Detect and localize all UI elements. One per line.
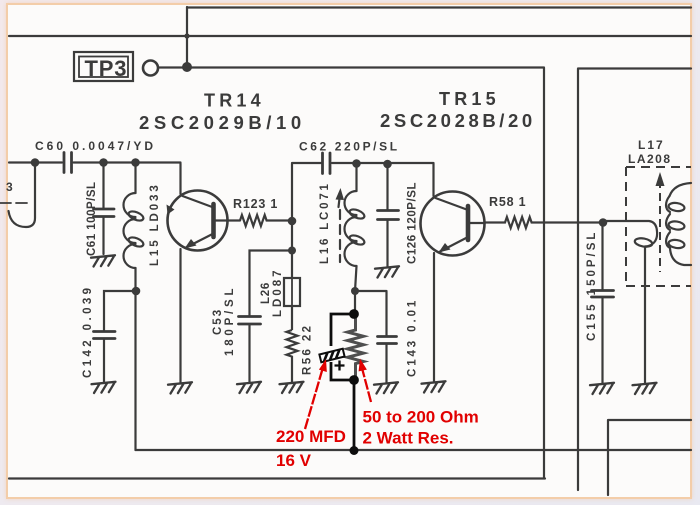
node black square bottom bbox=[349, 375, 359, 385]
plus sign of electrolytic bbox=[335, 361, 345, 371]
svg-text:2SC2029B/10: 2SC2029B/10 bbox=[139, 112, 306, 133]
ground of C143 bbox=[374, 382, 398, 393]
svg-text:3: 3 bbox=[6, 180, 13, 194]
capacitor electrolytic 220MFD hatched body bbox=[319, 349, 344, 363]
transistor TR14 bbox=[167, 164, 241, 384]
wire base net vertical x292 bbox=[288, 164, 297, 279]
capacitor C142 bbox=[94, 287, 141, 382]
wire input left with C60 bbox=[9, 161, 62, 163]
node C126 top bbox=[383, 160, 392, 169]
svg-text:TR15: TR15 bbox=[439, 89, 500, 109]
svg-text:C53: C53 bbox=[212, 308, 224, 335]
node TP3 junction bbox=[182, 62, 192, 72]
wire TP3 net down x544 bbox=[543, 68, 545, 478]
svg-text:TP3: TP3 bbox=[85, 56, 128, 81]
capacitor C143 bbox=[378, 292, 397, 384]
ground of C155 bbox=[590, 383, 614, 394]
transistor TR15 bbox=[421, 164, 485, 383]
node black square top bbox=[349, 309, 359, 319]
svg-text:LA208: LA208 bbox=[628, 152, 672, 166]
resistor R56 bbox=[287, 330, 298, 383]
tuning slug dashed core of L16 bbox=[339, 210, 341, 262]
red arrowhead 2 bbox=[359, 359, 367, 372]
svg-text:LD087: LD087 bbox=[272, 267, 284, 317]
node junction on bus bbox=[184, 33, 189, 38]
test point TP3 terminal circle bbox=[143, 61, 158, 76]
ground of TR15 emitter bbox=[422, 381, 446, 392]
wire second bus bbox=[9, 35, 691, 37]
svg-text:2SC2028B/20: 2SC2028B/20 bbox=[380, 110, 536, 131]
ground of TR14 emitter bbox=[168, 382, 192, 393]
transformer L17 dashed box bbox=[626, 167, 691, 286]
wire next stage bottom corner bbox=[608, 420, 691, 495]
svg-text:L15 LD033: L15 LD033 bbox=[149, 182, 161, 266]
svg-text:2 Watt Res.: 2 Watt Res. bbox=[363, 429, 454, 448]
capacitor C126 bbox=[378, 164, 399, 267]
wire C62 net bbox=[292, 153, 434, 174]
inductor L15 coil bbox=[124, 163, 145, 268]
red arrowhead 1 bbox=[319, 359, 327, 372]
annotation black wiring of electrolytic bbox=[331, 314, 354, 450]
node input bbox=[31, 158, 40, 167]
svg-text:C62 220P/SL: C62 220P/SL bbox=[299, 140, 400, 154]
inductor L26 box bbox=[284, 278, 300, 330]
ground of L17 primary bbox=[633, 383, 657, 394]
wire bottom rail A bbox=[136, 449, 692, 451]
wire vertical x187 bbox=[186, 7, 188, 67]
capacitor C62 plates bbox=[323, 153, 331, 174]
wire L15 branch down to rail A bbox=[134, 268, 136, 450]
svg-text:C155 150P/SL: C155 150P/SL bbox=[586, 230, 598, 341]
inductor L16 coil bbox=[339, 164, 366, 291]
ground of C142 bbox=[92, 382, 116, 393]
svg-text:L26: L26 bbox=[260, 282, 272, 304]
transformer L17 secondary winding bbox=[666, 183, 691, 265]
svg-text:50 to 200 Ohm: 50 to 200 Ohm bbox=[363, 408, 479, 427]
resistor annotated 50-200 ohm bbox=[348, 314, 364, 380]
capacitor C155 bbox=[592, 223, 614, 384]
wire top bus bbox=[187, 6, 691, 8]
ground of C126 bbox=[375, 266, 399, 277]
node black round on rail A bbox=[350, 446, 359, 455]
svg-text:C61 100P/SL: C61 100P/SL bbox=[86, 181, 98, 256]
annotation red arrow to capacitor bbox=[305, 369, 371, 429]
wire TP3 net horizontal bbox=[158, 66, 544, 68]
resistor R123 bbox=[240, 215, 292, 226]
svg-text:C143 0.01: C143 0.01 bbox=[407, 298, 419, 377]
svg-text:R123 1: R123 1 bbox=[233, 197, 278, 211]
wire bottom rail B bbox=[9, 477, 545, 479]
svg-text:R58 1: R58 1 bbox=[489, 195, 526, 209]
node L16 top bbox=[352, 159, 361, 168]
transformer L17 core dashed bbox=[659, 180, 661, 272]
capacitor C53 bbox=[239, 251, 293, 383]
svg-text:C60 0.0047/YD: C60 0.0047/YD bbox=[35, 139, 156, 153]
svg-text:C126 120P/SL: C126 120P/SL bbox=[407, 182, 419, 264]
capacitor C60 plates bbox=[64, 153, 72, 173]
wire emitter net bbox=[355, 291, 387, 314]
wire next stage box left bbox=[578, 69, 691, 496]
svg-text:TR14: TR14 bbox=[204, 91, 265, 111]
node emitter net bbox=[351, 287, 359, 295]
svg-text:L16 LC071: L16 LC071 bbox=[319, 181, 331, 264]
transformer L17 primary winding bbox=[603, 221, 657, 384]
svg-text:R56 22: R56 22 bbox=[302, 324, 314, 375]
ground of C61 bbox=[91, 255, 115, 266]
capacitor C61 bbox=[94, 163, 115, 255]
ground of C53 bbox=[237, 382, 261, 393]
node L15 bbox=[131, 158, 140, 167]
node R58 output bbox=[599, 218, 608, 227]
ground of R56 bbox=[280, 382, 304, 393]
resistor R58 bbox=[485, 217, 604, 228]
svg-text:220 MFD: 220 MFD bbox=[276, 427, 346, 446]
test point TP3 label box bbox=[74, 52, 133, 81]
svg-text:180P/SL: 180P/SL bbox=[224, 285, 236, 356]
arrow of L16 core bbox=[336, 188, 345, 200]
arrow of L17 core bbox=[656, 172, 665, 186]
partial component at left edge bbox=[9, 163, 36, 228]
node C61 bbox=[99, 158, 108, 167]
svg-text:16 V: 16 V bbox=[276, 451, 312, 470]
svg-text:L17: L17 bbox=[638, 138, 665, 152]
svg-text:C142 0.039: C142 0.039 bbox=[82, 285, 94, 378]
